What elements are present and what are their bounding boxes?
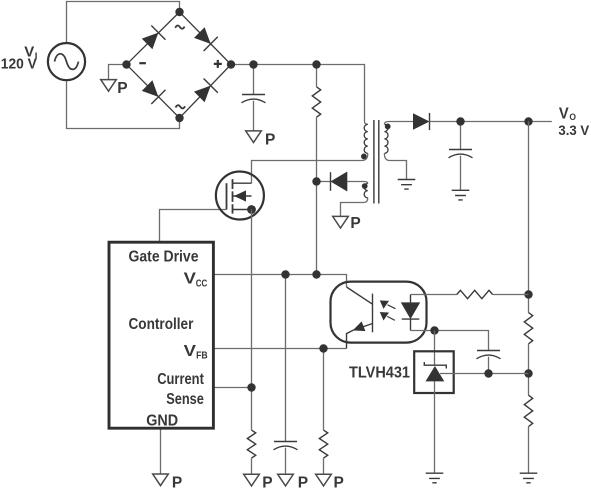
wire opto LED anode to feedback resistor xyxy=(411,294,457,296)
svg-text:P: P xyxy=(262,475,272,488)
diode output rectifier xyxy=(413,113,430,130)
wire secondary bottom to ground xyxy=(384,153,406,179)
resistor VFB pulldown xyxy=(319,430,327,458)
node output cap xyxy=(456,117,464,125)
svg-text:V: V xyxy=(184,343,197,360)
svg-text:P: P xyxy=(117,80,127,97)
resistor LED series xyxy=(457,290,493,298)
svg-text:Sense: Sense xyxy=(166,391,204,408)
svg-text:V: V xyxy=(184,271,197,288)
ground P (bridge minus) xyxy=(101,80,117,92)
transformer primary winding xyxy=(364,124,368,153)
node VCC cap tap xyxy=(281,270,289,278)
transformer auxiliary winding xyxy=(364,183,368,198)
node output sense xyxy=(524,117,532,125)
label ~ top xyxy=(175,26,184,29)
wire VCC pin to opto collector xyxy=(213,275,346,288)
wire TLVH431 ref to divider xyxy=(440,373,529,375)
wire VFB resistor branch xyxy=(323,349,325,431)
wire secondary top to output diode xyxy=(384,122,413,125)
svg-text:FB: FB xyxy=(196,351,208,362)
wire V_O down to feedback divider xyxy=(528,122,530,313)
node bridge right xyxy=(227,60,235,68)
ground earth (divider) xyxy=(520,473,538,483)
svg-text:P: P xyxy=(172,475,182,488)
node bridge top xyxy=(175,8,183,16)
label minus xyxy=(139,62,146,64)
wire rectified HV rail to transformer primary top xyxy=(231,65,368,125)
svg-text:P: P xyxy=(298,475,308,488)
svg-text:120 V: 120 V xyxy=(1,56,37,72)
node MOSFET source/body xyxy=(247,205,256,214)
wire primary bottom to MOSFET drain xyxy=(252,153,368,183)
wire VCC rail vertical xyxy=(316,117,318,274)
wire opto LED cathode to TLVH431 xyxy=(411,331,489,351)
phase dot primary xyxy=(361,154,367,160)
capacitor bulk (after bridge) xyxy=(253,65,255,95)
wire gate drive xyxy=(160,210,227,243)
node aux/VCC junction xyxy=(312,177,320,185)
resistor divider lower xyxy=(524,395,532,426)
wire TLVH431 anode to ground xyxy=(434,381,436,473)
resistor divider upper xyxy=(524,313,532,344)
transformer core xyxy=(374,120,379,204)
ground P (bulk cap) xyxy=(246,131,262,143)
wire top loop from source to bridge top xyxy=(67,2,180,44)
svg-text:TLVH431: TLVH431 xyxy=(349,364,410,381)
controller U1 box xyxy=(109,242,213,428)
ground earth (secondary) xyxy=(398,180,416,190)
opto phototransistor xyxy=(347,287,373,349)
wire output rail V_O xyxy=(430,121,552,123)
capacitor output xyxy=(460,122,462,150)
phase dot auxiliary xyxy=(362,183,368,189)
TLVH431 box xyxy=(414,351,454,393)
node compensation/ref xyxy=(484,369,492,377)
svg-text:P: P xyxy=(350,215,360,232)
TLVH431 shunt regulator symbol xyxy=(424,362,446,369)
node current sense xyxy=(247,383,255,391)
wire VCC bypass cap branch xyxy=(285,275,287,442)
ground P (VFB resistor) xyxy=(316,474,332,486)
ground P (current sense) xyxy=(244,474,260,486)
ground P (controller GND) xyxy=(153,474,169,486)
diode bridge diamond wires xyxy=(127,12,232,118)
svg-text:Current: Current xyxy=(157,371,204,388)
node VFB resistor tap xyxy=(319,344,327,352)
ground P (aux winding) xyxy=(333,216,349,228)
svg-text:GND: GND xyxy=(146,412,178,429)
opto light arrow 1 xyxy=(380,300,389,309)
svg-text:V: V xyxy=(559,106,569,123)
transformer secondary winding xyxy=(384,124,388,153)
ground P (VCC cap) xyxy=(278,474,294,486)
svg-text:P: P xyxy=(334,475,344,488)
node bridge left xyxy=(122,60,130,68)
wire MOSFET source to current sense xyxy=(251,210,253,431)
node VCC rail xyxy=(312,270,320,278)
bridge diode D2 (top-right edge) xyxy=(194,27,211,44)
wire current sense pin xyxy=(213,387,251,389)
wire bridge left node to ground xyxy=(109,65,127,80)
resistor current sense xyxy=(247,430,255,458)
bridge diode D4 (bottom-right edge) xyxy=(194,86,211,103)
wire aux bottom to ground xyxy=(341,198,368,217)
capacitor compensation xyxy=(477,350,500,352)
svg-text:CC: CC xyxy=(196,279,208,290)
wire bottom loop from source to bridge bottom xyxy=(67,80,180,128)
phase dot secondary xyxy=(385,124,391,130)
bridge diode D3 (left-bottom edge) xyxy=(142,80,159,97)
diode auxiliary (VCC) xyxy=(317,182,368,184)
bridge diode D1 (left-top edge) xyxy=(142,33,159,50)
opto light arrow 2 xyxy=(380,312,389,321)
label ~ bottom xyxy=(176,105,186,108)
ground earth (TLVH431) xyxy=(426,473,444,483)
svg-text:P: P xyxy=(265,131,275,148)
node divider top xyxy=(524,290,532,298)
wire GND pin xyxy=(160,428,162,474)
MOSFET Q1 xyxy=(216,172,264,220)
node bulk cap xyxy=(249,60,257,68)
ground earth (output cap) xyxy=(452,190,470,200)
opto-coupler U2 body xyxy=(331,282,427,343)
resistor startup (HV to VCC) xyxy=(316,65,318,87)
AC source V_I xyxy=(48,43,85,80)
opto LED xyxy=(402,295,420,331)
wire TLVH431 cathode xyxy=(434,331,436,366)
node divider mid (REF) xyxy=(524,369,532,377)
svg-text:Controller: Controller xyxy=(129,316,194,333)
svg-text:3.3 V: 3.3 V xyxy=(558,122,589,138)
node bridge bottom xyxy=(175,114,183,122)
label plus xyxy=(214,60,222,68)
node LED cathode xyxy=(430,326,438,334)
svg-text:Gate Drive: Gate Drive xyxy=(129,249,199,266)
node startup resistor xyxy=(312,60,320,68)
wire VFB pin to opto emitter xyxy=(213,348,346,350)
